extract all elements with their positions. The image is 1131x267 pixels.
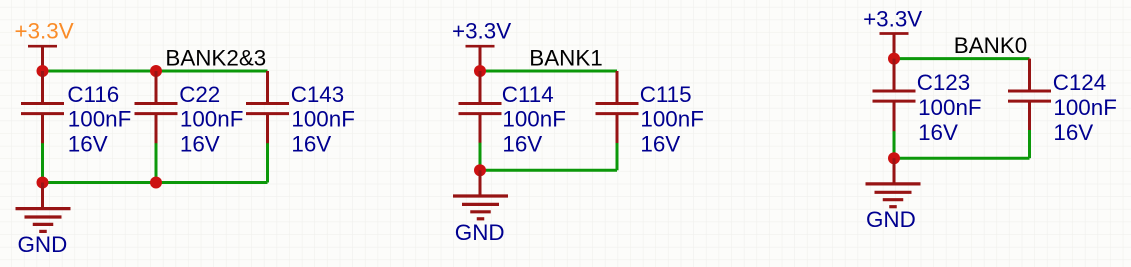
net label BANK2&3 [165, 45, 266, 70]
svg-text:16V: 16V [68, 131, 108, 156]
capacitor C115 designator label [640, 82, 692, 107]
svg-text:C143: C143 [291, 82, 345, 107]
capacitor C114 voltage label 16V [502, 131, 542, 156]
svg-text:C123: C123 [917, 70, 971, 95]
wire: GND bottom rail of BANK2&3 [43, 181, 268, 184]
power port +3.3V bar symbol (BANK1 group) [466, 46, 495, 71]
svg-text:+3.3V: +3.3V [15, 19, 74, 44]
junction at C22 bottom [150, 177, 162, 189]
net label BANK1 [529, 45, 602, 70]
ground label GND (BANK1) [455, 220, 505, 245]
junction at C114 top [474, 65, 486, 77]
capacitor C143 voltage label 16V [291, 131, 331, 156]
capacitor C116 value label 100nF [68, 107, 132, 132]
svg-text:C115: C115 [640, 82, 692, 107]
capacitor C143 value label 100nF [291, 107, 355, 132]
ground symbol (BANK1) [453, 196, 508, 219]
svg-text:+3.3V: +3.3V [452, 19, 511, 44]
capacitor C123 voltage label 16V [918, 120, 958, 145]
svg-text:BANK2&3: BANK2&3 [165, 45, 266, 70]
capacitor C124 voltage label 16V [1053, 120, 1093, 145]
ground label GND (BANK0) [866, 207, 916, 232]
capacitor C115 [596, 71, 639, 144]
capacitor C115 value label 100nF [640, 107, 704, 132]
svg-text:16V: 16V [180, 131, 220, 156]
capacitor C123 designator label [917, 70, 971, 95]
junction at C22 top [150, 65, 162, 77]
wire: GND bottom rail of BANK1 [480, 169, 617, 172]
capacitor C22 designator label [179, 82, 220, 107]
wire: +3.3V top rail of BANK2&3 [43, 70, 268, 73]
wire: GND bottom rail of BANK0 [894, 157, 1030, 160]
svg-text:C114: C114 [502, 82, 554, 107]
svg-text:16V: 16V [502, 131, 542, 156]
capacitor C115 voltage label 16V [640, 131, 680, 156]
power port +3.3V net label (BANK0 group) [863, 6, 922, 31]
wire: C143 bottom to GND rail [266, 143, 269, 182]
junction at C116 top [37, 65, 49, 77]
wire: C115 bottom to GND rail [616, 143, 619, 170]
svg-text:100nF: 100nF [640, 107, 704, 132]
wire: +3.3V top rail of BANK0 [894, 57, 1030, 60]
wire: C22 bottom to GND rail [155, 143, 158, 182]
svg-text:GND: GND [455, 220, 505, 245]
svg-text:100nF: 100nF [502, 107, 566, 132]
ground symbol (BANK2&3) [16, 209, 71, 232]
svg-text:100nF: 100nF [291, 107, 355, 132]
svg-text:100nF: 100nF [1053, 95, 1117, 120]
svg-text:+3.3V: +3.3V [863, 6, 922, 31]
ground stem (BANK1) [479, 170, 482, 195]
svg-text:16V: 16V [640, 131, 680, 156]
capacitor C114 designator label [502, 82, 554, 107]
power port +3.3V bar symbol (BANK0 group) [880, 34, 909, 59]
svg-text:100nF: 100nF [180, 107, 244, 132]
svg-text:BANK0: BANK0 [954, 33, 1027, 58]
capacitor C143 designator label [291, 82, 345, 107]
net label BANK0 [954, 33, 1027, 58]
capacitor C123 value label 100nF [918, 95, 982, 120]
wire: C116 bottom to GND rail [41, 143, 44, 182]
junction at C114 bottom [474, 164, 486, 176]
capacitor C114 value label 100nF [502, 107, 566, 132]
wire: C123 bottom to GND rail [893, 131, 896, 158]
wire: +3.3V top rail of BANK1 [480, 70, 617, 73]
svg-text:C124: C124 [1053, 70, 1107, 95]
capacitor C143 [246, 71, 289, 144]
svg-text:16V: 16V [918, 120, 958, 145]
ground label GND (BANK2&3) [18, 232, 68, 257]
wire: C114 bottom to GND rail [479, 143, 482, 171]
junction at C116 bottom [37, 177, 49, 189]
capacitor C124 designator label [1053, 70, 1107, 95]
capacitor C124 value label 100nF [1053, 95, 1117, 120]
svg-text:100nF: 100nF [68, 107, 132, 132]
junction at C123 bottom [888, 152, 900, 164]
svg-text:100nF: 100nF [918, 95, 982, 120]
power port +3.3V net label (BANK2&3 group) [15, 19, 74, 44]
ground stem (BANK0) [893, 158, 896, 183]
capacitor C22 [135, 71, 178, 144]
svg-text:GND: GND [866, 207, 916, 232]
capacitor C116 voltage label 16V [68, 131, 108, 156]
capacitor C116 [21, 71, 64, 144]
capacitor C114 [459, 71, 502, 143]
capacitor C22 value label 100nF [180, 107, 244, 132]
capacitor C116 designator label [67, 82, 119, 107]
svg-text:16V: 16V [291, 131, 331, 156]
svg-text:GND: GND [18, 232, 68, 257]
svg-text:C22: C22 [179, 82, 220, 107]
junction at C123 top [888, 53, 900, 65]
svg-text:C116: C116 [67, 82, 119, 107]
capacitor C124 [1008, 59, 1051, 131]
ground stem (BANK2&3) [41, 183, 44, 208]
wire: C124 bottom to GND rail [1028, 130, 1031, 158]
svg-text:16V: 16V [1053, 120, 1093, 145]
capacitor C22 voltage label 16V [180, 131, 220, 156]
ground symbol (BANK0) [866, 184, 921, 207]
power port +3.3V bar symbol (BANK2&3 group) [28, 46, 57, 71]
power port +3.3V net label (BANK1 group) [452, 19, 511, 44]
svg-text:BANK1: BANK1 [529, 45, 602, 70]
capacitor C123 [873, 59, 916, 132]
